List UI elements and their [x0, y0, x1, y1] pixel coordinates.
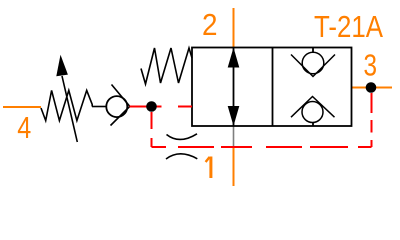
orifice restriction — [166, 134, 197, 159]
junction dot B (port 3) — [366, 82, 377, 93]
check valve CV1 (top) — [291, 48, 335, 77]
spring S1 (upper, on valve body) — [141, 48, 192, 84]
check valve CV2 (bottom) — [291, 97, 335, 127]
flow path double arrow — [228, 48, 240, 127]
port 1 label — [206, 157, 211, 179]
valve body box — [192, 48, 352, 127]
svg-text:4: 4 — [17, 111, 31, 145]
svg-text:3: 3 — [363, 49, 377, 83]
svg-text:2: 2 — [202, 8, 218, 42]
adjustment arrow — [56, 55, 77, 142]
junction dot A — [146, 101, 157, 112]
pilot line solid red seat to junction — [130, 106, 162, 108]
pilot line dashed red bottom run — [152, 146, 372, 148]
wire port 4 line (orange) — [3, 106, 41, 108]
svg-text:T-21A: T-21A — [314, 10, 384, 44]
pilot line dashed red junction to valve body — [178, 106, 192, 108]
ball-seat pilot valve — [106, 85, 130, 126]
wire port 2 line (orange) — [233, 8, 235, 48]
valve body divider — [272, 48, 274, 127]
pilot line dashed red main loop — [151, 112, 153, 147]
wire port 1 line (orange) — [233, 148, 235, 187]
wire gray stub below valve body — [233, 126, 235, 146]
pilot line dashed red right side — [371, 93, 373, 147]
wire spring to ball seat — [92, 106, 107, 108]
wire port 3 line (orange) — [352, 87, 393, 89]
spring S2 (lower, adjustable) — [41, 90, 92, 120]
